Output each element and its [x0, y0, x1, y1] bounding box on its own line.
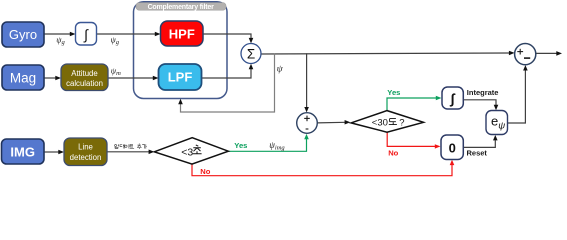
- wire IMG to Line detection: [44, 150, 64, 155]
- svg-text:IMG: IMG: [10, 144, 35, 159]
- wire comparator adder to decision 30deg: [317, 120, 350, 125]
- svg-text:calculation: calculation: [66, 79, 103, 88]
- block Line detection: [64, 138, 107, 166]
- integrator box (after Gyro): [76, 23, 97, 46]
- svg-text:<3: <3: [181, 146, 193, 158]
- svg-text:detection: detection: [70, 153, 102, 162]
- integrate box (right): [442, 87, 463, 109]
- decision diamond 3sec: [154, 138, 228, 164]
- svg-text:HPF: HPF: [169, 26, 195, 41]
- wire output adder to final output: [536, 51, 562, 56]
- header bar Complementary filter: [136, 3, 226, 11]
- container Complementary filter group box: [134, 2, 228, 99]
- wire feedback psi to LPF (grey): [178, 54, 274, 112]
- wire psi branch down to comparator adder: [304, 53, 309, 112]
- wire Mag to Attitude calculation: [45, 76, 62, 81]
- wire LPF to summing junction bottom: [202, 64, 254, 78]
- svg-text:<30: <30: [372, 118, 388, 129]
- block Attitude calculation: [61, 64, 108, 91]
- block Mag: [2, 65, 44, 90]
- wire Line detection to decision 3sec: [107, 150, 154, 155]
- wire Yes path decision 3sec to comparator adder (green): [228, 134, 308, 151]
- zero reset box: [441, 135, 463, 160]
- summing junction Sigma: [241, 44, 261, 64]
- output adder (plus minus): [515, 44, 536, 65]
- wire e_psi box to output adder: [508, 65, 528, 123]
- svg-text:No: No: [200, 167, 210, 176]
- wire zero box to e_psi box: [464, 135, 498, 147]
- svg-text:Σ: Σ: [247, 47, 255, 62]
- wire HPF to summing junction top: [203, 34, 253, 43]
- wire Yes path decision 30deg to integrate box (green): [387, 96, 442, 110]
- wire No path decision 30deg to zero box (red): [387, 132, 440, 148]
- decision diamond 30deg: [351, 111, 424, 133]
- svg-text:Line: Line: [78, 143, 93, 152]
- svg-text:Gyro: Gyro: [9, 27, 37, 42]
- wire summing junction to output adder (main psi line): [261, 51, 515, 56]
- svg-text:?: ?: [399, 118, 404, 129]
- svg-text:Yes: Yes: [234, 141, 247, 150]
- comparator adder (psi minus psi_img): [297, 113, 318, 134]
- wire Attitude calculation to LPF: [108, 76, 159, 81]
- svg-text:Attitude: Attitude: [71, 69, 97, 78]
- svg-text:0: 0: [449, 141, 456, 156]
- label update-period annotation (Korean: 업데이트 추가): [115, 144, 147, 149]
- block IMG: [2, 139, 45, 164]
- svg-text:LPF: LPF: [168, 70, 193, 85]
- wire integrate box to e_psi box: [463, 100, 498, 110]
- svg-text:Mag: Mag: [10, 70, 36, 85]
- svg-text:Yes: Yes: [387, 88, 400, 97]
- svg-text:Reset: Reset: [467, 148, 488, 157]
- svg-text:Integrate: Integrate: [467, 88, 499, 97]
- block LPF: [159, 64, 202, 90]
- e_psi box: [486, 111, 508, 135]
- block Gyro: [2, 22, 44, 47]
- wire integrator to HPF: [97, 32, 161, 37]
- wire Gyro to integrator: [45, 32, 76, 37]
- svg-text:No: No: [388, 148, 398, 157]
- block HPF: [161, 21, 204, 46]
- svg-text:Complementary filter: Complementary filter: [148, 4, 214, 11]
- wire No path decision 3sec to zero box bottom (red): [192, 160, 454, 176]
